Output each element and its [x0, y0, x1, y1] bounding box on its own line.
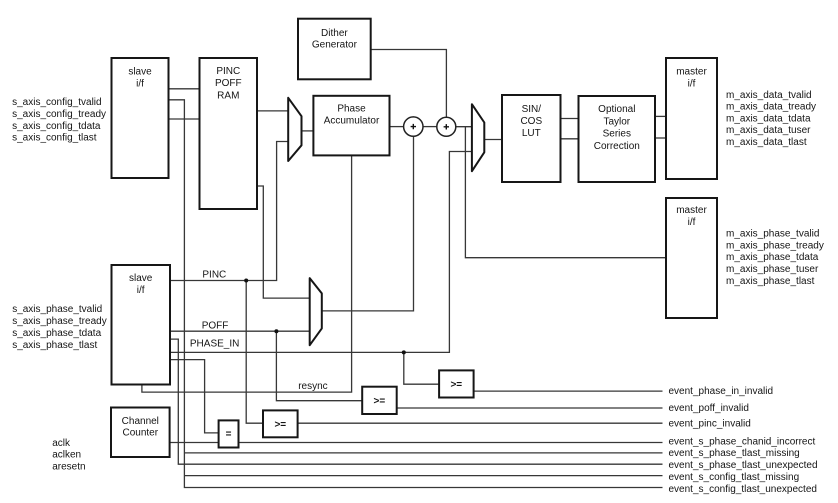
- wire resync from slave2 bottom to Phase Accumulator: [142, 155, 352, 392]
- svg-text:slave: slave: [129, 273, 153, 284]
- svg-text:Correction: Correction: [594, 141, 640, 152]
- mux M3 poff select: [310, 278, 322, 345]
- wire PINC from slave2 up to mux M1: [170, 142, 288, 281]
- svg-text:SIN/: SIN/: [522, 104, 542, 115]
- wire Channel Counter to comparator EQ: [170, 442, 219, 444]
- wire SIN/COS LUT to Taylor (cos): [561, 138, 579, 140]
- svg-text:RAM: RAM: [217, 90, 239, 101]
- comparator GE3 phase_in: [439, 370, 474, 397]
- comparator GE1 pinc: [263, 410, 298, 437]
- wire chan id from slave2 to comparator EQ: [170, 360, 219, 433]
- svg-text:>=: >=: [450, 380, 462, 391]
- svg-text:LUT: LUT: [522, 128, 541, 139]
- svg-text:m_axis_data_tuser: m_axis_data_tuser: [726, 125, 811, 136]
- svg-text:event_poff_invalid: event_poff_invalid: [669, 403, 749, 414]
- svg-text:event_s_config_tlast_unexpecte: event_s_config_tlast_unexpected: [669, 484, 817, 495]
- comparator GE2 poff: [362, 387, 397, 414]
- wire RAM to mux M1: [257, 110, 288, 112]
- svg-text:slave: slave: [128, 67, 152, 78]
- wire event_s_phase_tlast_missing branch: [184, 452, 662, 454]
- svg-text:i/f: i/f: [136, 78, 144, 89]
- svg-text:event_s_config_tlast_missing: event_s_config_tlast_missing: [669, 472, 800, 483]
- svg-text:m_axis_data_tvalid: m_axis_data_tvalid: [726, 90, 812, 101]
- svg-text:COS: COS: [520, 116, 542, 127]
- svg-text:i/f: i/f: [688, 217, 696, 228]
- Channel Counter box U10: [111, 408, 170, 458]
- svg-text:s_axis_phase_tdata: s_axis_phase_tdata: [12, 328, 101, 339]
- svg-text:aclken: aclken: [52, 450, 81, 461]
- svg-text:Generator: Generator: [312, 40, 358, 51]
- wire event_s_config_tlast_missing branch: [184, 475, 662, 477]
- wire SIN/COS LUT to Taylor (sin): [561, 118, 579, 120]
- node PINC junction: [244, 279, 248, 283]
- svg-text:event_s_phase_tlast_missing: event_s_phase_tlast_missing: [669, 448, 800, 459]
- adder A1: [404, 117, 423, 136]
- svg-text:Phase: Phase: [337, 104, 366, 115]
- svg-text:s_axis_config_tdata: s_axis_config_tdata: [12, 121, 101, 132]
- wire Taylor to master1 (cos): [655, 137, 666, 139]
- wire mux M2 to SIN/COS LUT: [484, 139, 502, 141]
- svg-text:m_axis_phase_tlast: m_axis_phase_tlast: [726, 276, 815, 287]
- PINC POFF RAM box U2: [200, 58, 258, 209]
- svg-text:s_axis_config_tready: s_axis_config_tready: [12, 109, 106, 120]
- wire comparator EQ output event_s_phase_chanid_incorrect: [239, 442, 663, 444]
- mux M2 phase select: [472, 104, 484, 171]
- svg-text:Channel: Channel: [122, 416, 159, 427]
- svg-text:event_pinc_invalid: event_pinc_invalid: [669, 419, 751, 430]
- wire slave1 to RAM (lower): [169, 118, 200, 120]
- wire POFF from slave2 to mux M3: [170, 330, 310, 332]
- svg-text:aresetn: aresetn: [52, 461, 85, 472]
- svg-text:PINC: PINC: [202, 269, 226, 280]
- svg-text:s_axis_phase_tlast: s_axis_phase_tlast: [12, 340, 97, 351]
- wire PINC drop to comparator GE1: [246, 281, 263, 424]
- wire comparator GE1 output event_pinc_invalid: [298, 422, 663, 424]
- svg-text:POFF: POFF: [215, 78, 242, 89]
- svg-text:PINC: PINC: [216, 66, 240, 77]
- wire slave1 to RAM (upper): [169, 88, 200, 90]
- svg-text:>=: >=: [374, 396, 386, 407]
- wire mux M1 to Phase Accumulator: [302, 130, 314, 132]
- adder A2: [437, 117, 456, 136]
- svg-text:Optional: Optional: [598, 104, 635, 115]
- svg-text:PHASE_IN: PHASE_IN: [190, 338, 239, 349]
- svg-text:m_axis_phase_tdata: m_axis_phase_tdata: [726, 252, 819, 263]
- svg-text:s_axis_config_tlast: s_axis_config_tlast: [12, 133, 97, 144]
- Dither Generator box U3: [298, 19, 371, 80]
- svg-text:m_axis_data_tready: m_axis_data_tready: [726, 102, 816, 113]
- wire Taylor to master1 (sin): [655, 115, 666, 117]
- svg-text:m_axis_phase_tvalid: m_axis_phase_tvalid: [726, 229, 819, 240]
- svg-text:Series: Series: [603, 129, 631, 140]
- slave i/f box U1 (config): [112, 58, 169, 178]
- wire comparator GE3 output event_phase_in_invalid: [474, 390, 663, 392]
- svg-text:m_axis_phase_tuser: m_axis_phase_tuser: [726, 264, 819, 275]
- master i/f box U7 (data): [666, 58, 717, 179]
- svg-text:master: master: [676, 67, 707, 78]
- wire Phase Accumulator to adder A1: [390, 126, 404, 128]
- wire comparator GE2 output event_poff_invalid: [397, 407, 663, 409]
- comparator EQ chan id: [219, 420, 239, 447]
- svg-text:=: =: [226, 429, 232, 440]
- svg-text:s_axis_phase_tready: s_axis_phase_tready: [12, 316, 107, 327]
- svg-text:event_s_phase_chanid_incorrect: event_s_phase_chanid_incorrect: [669, 436, 816, 447]
- svg-text:>=: >=: [274, 419, 286, 430]
- svg-text:Counter: Counter: [123, 428, 159, 439]
- svg-text:m_axis_data_tlast: m_axis_data_tlast: [726, 137, 807, 148]
- wire slave1 config-tlast drop (down left side to config events): [169, 100, 663, 488]
- svg-text:Taylor: Taylor: [603, 116, 630, 127]
- svg-text:Accumulator: Accumulator: [324, 115, 380, 126]
- svg-text:POFF: POFF: [202, 321, 229, 332]
- svg-text:aclk: aclk: [52, 438, 71, 449]
- wire mux M3 output up to adder A1: [322, 136, 414, 311]
- wire PHASE_IN drop to comparator GE3: [404, 352, 439, 384]
- wire RAM POFF output to mux M3: [257, 186, 310, 298]
- wire slave2 tlast drop to event_s_phase_tlast_unexpected: [170, 339, 663, 464]
- wire adder A2 to mux M2: [456, 126, 472, 128]
- svg-text:i/f: i/f: [688, 78, 696, 89]
- wire POFF drop to comparator GE2: [276, 331, 362, 401]
- node PHASE_IN junction: [402, 350, 406, 354]
- node POFF junction: [274, 329, 278, 333]
- Phase Accumulator box U4: [313, 96, 389, 156]
- wire PHASE_IN from slave2 up to mux M2: [170, 152, 472, 353]
- svg-text:master: master: [676, 205, 707, 216]
- svg-text:i/f: i/f: [137, 285, 145, 296]
- SIN/COS LUT box U5: [502, 95, 561, 182]
- mux M1 pinc select: [288, 98, 301, 161]
- master i/f box U8 (phase): [666, 198, 717, 318]
- svg-text:event_s_phase_tlast_unexpected: event_s_phase_tlast_unexpected: [669, 460, 818, 471]
- svg-text:m_axis_phase_tready: m_axis_phase_tready: [726, 240, 824, 251]
- svg-text:event_phase_in_invalid: event_phase_in_invalid: [669, 386, 774, 397]
- wire Dither Generator to adder A2: [371, 50, 447, 118]
- slave i/f box U9 (phase): [112, 265, 171, 385]
- svg-text:s_axis_phase_tvalid: s_axis_phase_tvalid: [12, 304, 102, 315]
- wire phase out drop to master2: [465, 127, 666, 258]
- svg-text:resync: resync: [298, 381, 327, 392]
- wire adder A1 to adder A2: [423, 126, 437, 128]
- svg-text:m_axis_data_tdata: m_axis_data_tdata: [726, 113, 811, 124]
- Optional Taylor Series Correction box U6: [579, 96, 656, 182]
- svg-text:s_axis_config_tvalid: s_axis_config_tvalid: [12, 97, 102, 108]
- svg-text:Dither: Dither: [321, 28, 348, 39]
